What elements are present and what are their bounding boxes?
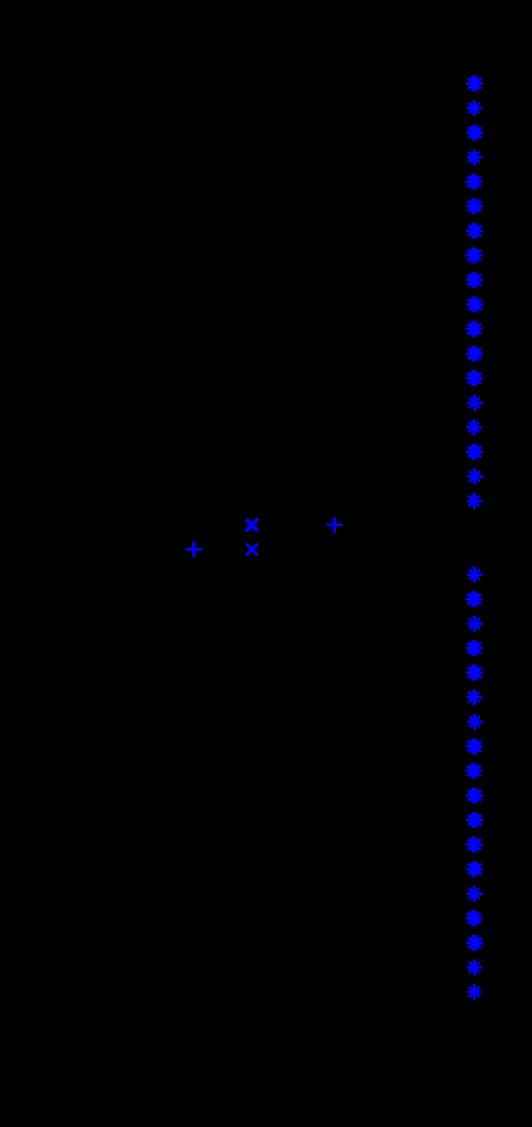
data point cluster row 8 bbox=[466, 272, 480, 288]
data point cluster row 29 bbox=[466, 788, 480, 804]
outlier row 18: + marker series bbox=[326, 517, 342, 532]
data point cluster row 12 bbox=[466, 370, 480, 386]
data point cluster row 9 bbox=[466, 297, 480, 313]
data point cluster row 3 bbox=[467, 149, 481, 165]
data point cluster row 11 bbox=[466, 346, 480, 362]
data point cluster row 26 bbox=[467, 714, 481, 730]
data point cluster row 20 bbox=[467, 567, 481, 583]
data point cluster row 24 bbox=[466, 665, 480, 681]
data point cluster row 34 bbox=[466, 910, 480, 926]
data point cluster row 32 bbox=[466, 861, 480, 877]
data point cluster row 37 bbox=[467, 984, 481, 1000]
data point cluster row 4 bbox=[465, 174, 479, 190]
data point cluster row 17 bbox=[467, 493, 481, 509]
data point cluster row 27 bbox=[466, 738, 480, 754]
data point cluster row 30 bbox=[466, 812, 480, 828]
data point cluster row 33 bbox=[467, 886, 481, 902]
outlier row 19: + marker series bbox=[186, 541, 202, 556]
outlier row 19: x marker series bbox=[246, 544, 258, 556]
data point cluster row 35 bbox=[466, 935, 480, 951]
data point cluster row 25 bbox=[467, 689, 481, 705]
data point cluster row 23 bbox=[466, 640, 480, 656]
data point cluster row 2 bbox=[466, 125, 480, 141]
data point cluster row 14 bbox=[467, 419, 481, 435]
data point cluster row 21 bbox=[465, 591, 479, 607]
data point cluster row 28 bbox=[465, 763, 479, 779]
data point cluster row 0 bbox=[466, 76, 480, 92]
data point cluster row 16 bbox=[467, 468, 481, 484]
data point cluster row 22 bbox=[467, 616, 481, 632]
data point cluster row 6 bbox=[466, 223, 480, 239]
data point cluster row 31 bbox=[466, 837, 480, 853]
data point cluster row 7 bbox=[465, 247, 479, 263]
data point cluster row 1 bbox=[467, 100, 481, 116]
outlier row 18: x marker series bbox=[246, 519, 258, 531]
data point cluster row 36 bbox=[467, 959, 481, 975]
data point cluster row 13 bbox=[467, 395, 481, 411]
data point cluster row 15 bbox=[466, 444, 480, 460]
data point cluster row 5 bbox=[466, 198, 480, 214]
data point cluster row 10 bbox=[466, 321, 480, 337]
